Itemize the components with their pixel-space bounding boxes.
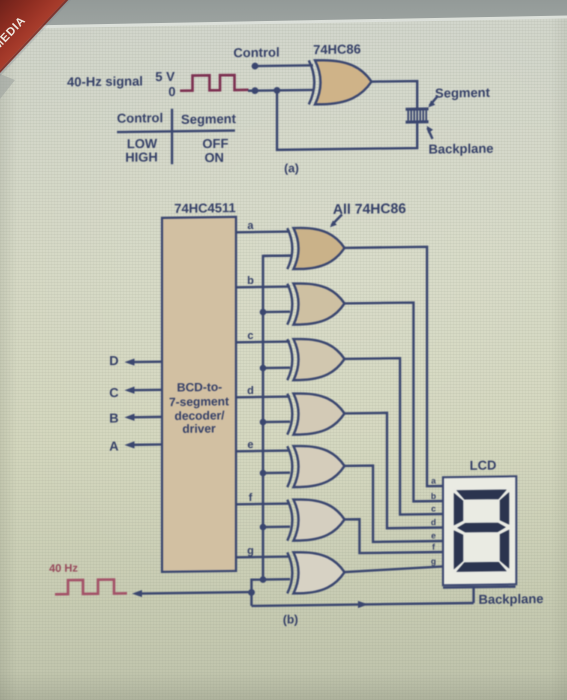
node 40-Hz line / gate b (260, 309, 267, 316)
wire gate g output to LCD segment g (343, 566, 443, 572)
LCD pin labels a-g (431, 476, 436, 567)
xor gate U6 (74HC86) for segment d (294, 393, 345, 435)
wire 40-Hz to gate b lower input (263, 311, 290, 314)
node 40-Hz line / gate g (260, 576, 267, 583)
xor gate U8 (74HC86) for segment f (294, 499, 345, 541)
wire decoder output d (236, 395, 290, 398)
photo top band (0, 0, 567, 40)
page top edge highlight (0, 15, 567, 29)
wire 40-Hz to gate e lower input (263, 472, 290, 475)
wire decoder output c (236, 340, 290, 343)
40-Hz square wave (section a) (180, 75, 249, 91)
xor gate U4 (74HC86) for segment b (294, 283, 345, 325)
wire decoder output b (236, 285, 290, 288)
wire control input to XOR U1 (255, 64, 314, 67)
xor gate U9 (74HC86) for segment g (294, 552, 345, 594)
wire bottom backplane rail with arrow (252, 603, 474, 606)
node feedback tap (274, 87, 281, 94)
xor gate U3 (74HC86) for segment a (294, 227, 345, 269)
wire 40-Hz to XOR U1 lower input (248, 89, 313, 92)
wire 40-Hz to gate a lower input (263, 254, 290, 257)
wire backplane to bottom rail (472, 587, 474, 603)
ribbon dark lower edge (0, 0, 68, 73)
wire gate d output to LCD segment d (343, 412, 443, 529)
node 40-Hz line / gate c (260, 365, 267, 372)
40-Hz square wave (section b) (55, 579, 127, 594)
node 40-Hz (lower-left dot) (252, 87, 259, 94)
gray backdrop corner under ribbon (0, 74, 15, 99)
ribbon shadow (0, 0, 72, 77)
wire gate a output to LCD segment a (343, 247, 443, 488)
wire 40-Hz vertical distribution line (252, 256, 293, 606)
wire gate c output to LCD segment c (343, 358, 443, 516)
wire 40-Hz to gate c lower input (263, 367, 290, 370)
decoder U2 74HC4511 BCD-to-7-segment (162, 217, 236, 572)
wire 40-Hz to gate g lower input (263, 578, 290, 581)
wire decoder output a (236, 230, 290, 233)
wire gate b output to LCD segment b (343, 302, 443, 502)
wire backplane feedback loop (277, 89, 417, 150)
wire gate f output to LCD segment f (343, 518, 443, 553)
wire 40-Hz to gate f lower input (263, 526, 290, 529)
node 40-Hz line / gate e (260, 470, 267, 477)
table control/segment (117, 108, 237, 166)
wire decoder output g (236, 555, 290, 558)
LCD backplane bar (443, 585, 516, 588)
wire decoder output e (236, 449, 290, 452)
wire 40-Hz input with arrow (139, 592, 252, 593)
node control (left dot) (252, 63, 259, 70)
xor gate U1 74HC86 (section a) (315, 60, 372, 105)
node 40-Hz line / gate d (260, 419, 267, 426)
xor gate U7 (74HC86) for segment e (294, 445, 345, 487)
input D with arrow (109, 352, 162, 368)
label All 74HC86 with pointer arrow (330, 200, 406, 227)
LCD segment electrode symbol (406, 109, 429, 122)
wire decoder output f (236, 502, 290, 505)
input A with arrow (109, 438, 162, 454)
node 40-Hz line / gate f (260, 524, 267, 531)
xor gate U5 (74HC86) for segment c (294, 338, 345, 380)
input B with arrow (109, 410, 162, 426)
node 40-Hz input junction (248, 589, 255, 596)
LCD display box (443, 476, 516, 585)
red MULTIMEDIA corner ribbon (0, 0, 66, 70)
7-segment digit 8 (453, 489, 510, 573)
input C with arrow (109, 384, 162, 400)
wire U1 output to segment electrode (370, 81, 417, 109)
wire gate e output to LCD segment e (343, 465, 443, 543)
wire 40-Hz to gate d lower input (263, 421, 290, 424)
